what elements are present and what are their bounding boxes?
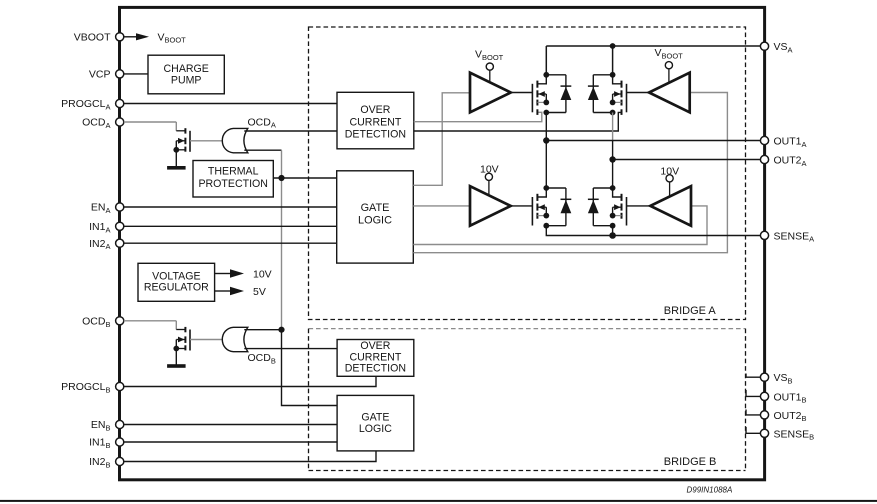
svg-text:OVER: OVER (360, 104, 390, 116)
footer rule (0, 500, 877, 502)
wire gate to OR-B (grey) (190, 339, 222, 341)
node sense junction (609, 232, 616, 239)
wire VSB stub (746, 374, 760, 378)
wire thermal to gate logic A (273, 177, 336, 179)
block over current detection A (337, 92, 414, 149)
wire IN2B (124, 451, 376, 462)
svg-text:CURRENT: CURRENT (350, 116, 402, 128)
node thermal junction (278, 175, 284, 181)
svg-text:DETECTION: DETECTION (345, 129, 406, 141)
pin ENB (116, 420, 124, 428)
wire buffer L 10V out (511, 205, 533, 207)
pin VSB (760, 373, 768, 381)
node shared junction B (278, 327, 284, 333)
wire rail drop left (545, 46, 547, 75)
pin OCDB (116, 317, 124, 325)
svg-text:THERMAL: THERMAL (208, 166, 259, 178)
svg-text:REGULATOR: REGULATOR (144, 282, 209, 294)
wire OCD sense right FET (414, 112, 621, 131)
bridge B dashed box (309, 328, 746, 330)
block over current detection B (337, 340, 414, 377)
wire SENSEA (613, 235, 761, 237)
diode HS right A (593, 74, 612, 76)
wire shared to gate logic B (282, 330, 338, 406)
wire 10V output arrow (215, 273, 230, 275)
ground A (167, 166, 186, 170)
wire thermal shared vertical (grey) (281, 150, 283, 330)
transistor LS right A (610, 185, 616, 191)
pin IN1B (116, 438, 124, 446)
pin VSA (760, 42, 768, 50)
wire LS sources join (546, 226, 612, 236)
pin PROGCLA (116, 99, 124, 107)
wire column left mid (545, 113, 547, 189)
block charge pump U-CP (148, 55, 224, 94)
buffer U3 VBOOT right (649, 73, 690, 113)
wire GLA to VBOOT buffer R (413, 93, 727, 253)
wire GLA to 10V buffer L (413, 205, 470, 207)
pin VCP (116, 70, 124, 78)
diode LS left A (546, 187, 566, 189)
svg-text:PUMP: PUMP (171, 75, 202, 87)
svg-text:SENSEB: SENSEB (774, 428, 815, 441)
pin PROGCLB (116, 382, 124, 390)
buffer U1 VBOOT left (470, 73, 511, 113)
svg-text:VCP: VCP (89, 69, 111, 81)
node rail junction (610, 43, 616, 49)
wire buffer L VBOOT out (511, 92, 533, 94)
wire VS rail (546, 45, 760, 47)
svg-text:BRIDGE B: BRIDGE B (664, 456, 717, 468)
pin SENSEB (760, 429, 768, 437)
svg-text:LOGIC: LOGIC (359, 423, 392, 435)
wire VCP to charge pump (124, 73, 148, 75)
or-gate A (222, 128, 248, 152)
pin ENA (116, 203, 124, 211)
pin VBOOT (116, 33, 124, 41)
svg-text:10V: 10V (253, 269, 272, 281)
wire buffer R 10V out (627, 205, 651, 207)
wire ENA (124, 206, 337, 208)
wire LS right to sense node (612, 226, 614, 236)
svg-text:PROGCLB: PROGCLB (61, 381, 110, 394)
svg-text:VBOOT: VBOOT (74, 32, 111, 44)
ground B (167, 364, 186, 368)
svg-text:GATE: GATE (361, 411, 389, 423)
svg-text:PROGCLA: PROGCLA (61, 98, 110, 111)
block voltage regulator (138, 263, 215, 301)
wire PROGCLA (124, 103, 337, 105)
svg-text:D99IN1088A: D99IN1088A (687, 485, 733, 494)
wire rail drop right (612, 46, 614, 75)
pin OUT1B (760, 392, 768, 400)
pin OCDA (116, 118, 124, 126)
svg-text:CHARGE: CHARGE (164, 63, 209, 75)
transistor HS left A (543, 72, 549, 78)
pin OUT1A (760, 136, 768, 144)
wire OUT1A (546, 140, 760, 142)
diode LS right A (593, 187, 612, 189)
pin OUT2B (760, 411, 768, 419)
pin OUT2A (760, 155, 768, 163)
transistor OCD pulldown B (124, 320, 177, 322)
svg-text:DETECTION: DETECTION (345, 363, 406, 375)
wire OUT2A (613, 159, 761, 161)
pin IN2A (116, 239, 124, 247)
wire PROGCLB (124, 376, 376, 386)
wire OCD sense left FET (414, 112, 542, 121)
block thermal protection (193, 161, 273, 198)
or-gate B (222, 327, 248, 351)
pin IN2B (116, 457, 124, 465)
transistor LS left A (543, 185, 549, 191)
pin IN1A (116, 222, 124, 230)
node OUT2 junction (609, 156, 615, 162)
wire IN1B (124, 441, 337, 443)
wire gate to OR-A (grey) (190, 140, 222, 142)
svg-text:PROTECTION: PROTECTION (198, 178, 267, 190)
svg-text:BRIDGE A: BRIDGE A (664, 305, 717, 317)
svg-text:GATE: GATE (361, 202, 390, 214)
wire OCDB to detection (244, 348, 337, 350)
pin SENSEA (760, 231, 768, 239)
diode HS left A (546, 74, 566, 76)
node OUT1 junction (543, 137, 549, 143)
wire OUT2B stub (746, 410, 760, 415)
svg-text:LOGIC: LOGIC (358, 215, 392, 227)
wire buffer R VBOOT out (627, 92, 650, 94)
wire IN2A (124, 242, 337, 244)
svg-text:SENSEA: SENSEA (774, 230, 815, 243)
wire GLA to 10V buffer R (413, 206, 707, 245)
wire OUT1B stub (746, 390, 760, 396)
bridge A dashed box (309, 27, 746, 320)
wire OR-B upper input (244, 329, 281, 331)
wire IN1A (124, 225, 337, 227)
svg-text:OVER: OVER (360, 340, 390, 352)
transistor OCD pulldown A (124, 121, 177, 123)
wire SENSEB stub (746, 427, 760, 433)
wire OR-A lower input (244, 149, 281, 151)
wire column right mid (612, 113, 614, 141)
wire ENB (124, 424, 337, 426)
svg-text:CURRENT: CURRENT (350, 351, 402, 363)
wire VBOOT arrow (124, 36, 136, 38)
buffer U2 10V left (470, 186, 511, 226)
wire OCDA to detection (244, 130, 337, 132)
svg-text:5V: 5V (253, 286, 266, 298)
block gate logic B (337, 395, 414, 451)
IC outer border (120, 7, 765, 479)
buffer U4 10V right (650, 186, 691, 226)
wire 5V output arrow (215, 290, 230, 292)
block gate logic A (337, 171, 414, 263)
transistor HS right A (610, 72, 616, 78)
wire GLA to VBOOT buffer L (413, 93, 470, 186)
